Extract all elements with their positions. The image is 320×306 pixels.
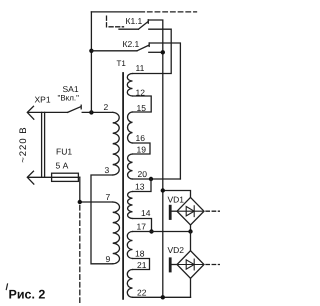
svg-text:К2.1: К2.1 xyxy=(123,39,140,49)
fuse FU1 xyxy=(52,173,79,181)
svg-text:16: 16 xyxy=(136,133,146,143)
wire: VD2 top link xyxy=(190,232,192,251)
svg-text:~220 В: ~220 В xyxy=(18,126,29,162)
wire: dashed off-page continuation down xyxy=(79,206,81,303)
wire: K1.1 bottom throw to pin 11 xyxy=(133,29,172,73)
svg-text:5 А: 5 А xyxy=(56,161,69,171)
wire: VD2 left vertex lead xyxy=(172,264,177,266)
wire: mains bottom lead XP1 through FU1 xyxy=(28,176,80,178)
svg-text:11: 11 xyxy=(136,63,145,73)
junction dot: pin 7 / fuse / off-page xyxy=(78,200,82,204)
dashed link to K1.1 (off-page) xyxy=(107,16,124,27)
wire: relay feed top rail xyxy=(91,11,144,13)
diode bridge VD2 diamond xyxy=(177,251,204,279)
junction dot: K2.1 common tap xyxy=(89,49,93,53)
svg-text:17: 17 xyxy=(137,222,147,232)
wire: pin 3 to pin 9 tie xyxy=(91,175,113,264)
wire: mains top lead XP1 to SA1 xyxy=(28,111,68,113)
transformer winding 21-22 xyxy=(127,270,132,298)
svg-text:ХР1: ХР1 xyxy=(35,95,51,105)
wire: VD1 left vertex lead xyxy=(172,210,177,212)
VD2 inner diode lead xyxy=(179,264,203,266)
svg-text:К1.1: К1.1 xyxy=(126,16,143,26)
relay contact K2.1 tick xyxy=(148,43,150,46)
relay contact K1.1 tick xyxy=(147,20,149,23)
svg-text:15: 15 xyxy=(137,103,147,113)
junction dot: jumper 13-20 xyxy=(149,177,153,181)
transformer winding 15-16 xyxy=(128,112,133,143)
relay contact K1.1 common lead xyxy=(119,28,138,30)
wire: fuse output down to pin 7 xyxy=(80,177,113,202)
svg-text:FU1: FU1 xyxy=(56,147,72,157)
VD2 minus terminal bar xyxy=(169,259,172,271)
VD1 inner diode triangle xyxy=(186,207,194,216)
svg-text:2: 2 xyxy=(104,102,109,112)
wire: VD2 output dashes (off-page) xyxy=(206,264,220,266)
svg-text:"Вкл.": "Вкл." xyxy=(58,94,80,103)
wire: VD1 output dashes (off-page) xyxy=(206,210,220,212)
transformer winding 19-20 xyxy=(128,154,133,179)
figure caption tick xyxy=(6,284,7,290)
transformer winding 11-12 xyxy=(127,74,132,97)
junction dot: VD1 bottom / pin 17 / VD2 top xyxy=(188,229,192,233)
transformer primary winding I (pins 2-3) xyxy=(113,112,120,175)
junction dot: jumper 14-17 xyxy=(149,229,153,233)
svg-text:9: 9 xyxy=(106,254,111,264)
svg-text:SA1: SA1 xyxy=(63,84,79,94)
svg-text:VD2: VD2 xyxy=(168,245,185,255)
svg-text:22: 22 xyxy=(137,287,147,297)
svg-text:Т1: Т1 xyxy=(117,59,127,68)
junction dot: bus V1 on bottom line xyxy=(161,295,165,299)
svg-text:19: 19 xyxy=(137,144,147,154)
transformer winding 17-18 xyxy=(127,232,132,259)
transformer T1 core xyxy=(122,73,124,299)
svg-text:7: 7 xyxy=(106,192,111,202)
wire: K2.1 bottom throw to bus V1 xyxy=(149,51,163,53)
wire: XP1 cord line 2 xyxy=(44,112,46,177)
switch SA1 contact tick xyxy=(80,105,82,109)
wire: SA1 output to node A and pin 2 xyxy=(82,111,113,113)
svg-text:VD1: VD1 xyxy=(168,195,185,205)
wire: VD1 bottom to pin 17 node xyxy=(190,225,192,232)
VD1 inner diode cathode bar xyxy=(193,206,195,217)
VD1 minus terminal bar xyxy=(169,206,172,218)
wire: jumper pin 20 to pin 13 xyxy=(133,179,152,192)
relay contact K1.1 blade xyxy=(138,22,147,29)
wire: VD1 feed from bus V1 xyxy=(163,191,191,198)
svg-text:14: 14 xyxy=(141,208,151,218)
switch SA1 blade xyxy=(68,107,81,113)
transformer winding 13-14 xyxy=(128,192,133,219)
wire: pin 20 line to riser xyxy=(133,178,181,180)
connector XP1 pin arrow (top) xyxy=(27,106,34,119)
wire: jumper pin 12 to pin 15 xyxy=(133,96,152,112)
wire: XP1 cord line 1 xyxy=(41,112,43,177)
svg-text:Рис. 2: Рис. 2 xyxy=(9,288,46,302)
svg-text:20: 20 xyxy=(138,169,148,179)
connector XP1 pin arrow (bottom) xyxy=(27,171,34,184)
wire: jumper pin 14 to pin 17 xyxy=(133,219,152,232)
wire: riser node A up to relay rail xyxy=(90,12,92,113)
VD2 inner diode triangle xyxy=(186,260,194,269)
svg-text:21: 21 xyxy=(137,260,147,270)
svg-text:18: 18 xyxy=(135,249,145,259)
wire: K2.1 top throw to pin 20 riser xyxy=(149,43,180,179)
wire: jumper pin 16 to pin 19 xyxy=(133,143,151,154)
wire: VD2 bottom to bottom line xyxy=(190,278,192,297)
node A junction dot (SA1/pin2/relay riser) xyxy=(89,110,93,114)
diode bridge VD1 diamond xyxy=(177,197,204,225)
transformer primary winding II (pins 7-9) xyxy=(113,202,120,264)
wire: jumper pin 18 to pin 21 xyxy=(133,259,150,270)
VD2 inner diode cathode bar xyxy=(193,259,195,270)
wire: K1.1 top throw to bus V1 xyxy=(148,20,163,297)
wire: top rail dashed continuation (off-page) xyxy=(148,11,197,13)
svg-text:13: 13 xyxy=(135,182,145,192)
wire: pin 17 line to VD1/VD2 xyxy=(133,231,191,233)
svg-text:3: 3 xyxy=(105,165,110,175)
VD1 inner diode lead xyxy=(179,210,203,212)
relay contact K2.1 blade xyxy=(137,45,149,51)
junction dot: VD1 feed on V1 xyxy=(161,188,165,192)
wire: pin 22 bottom line xyxy=(133,296,191,298)
junction dot: K2.1 bottom throw on V1 xyxy=(161,50,165,54)
relay contact K2.1 common lead xyxy=(91,50,137,52)
